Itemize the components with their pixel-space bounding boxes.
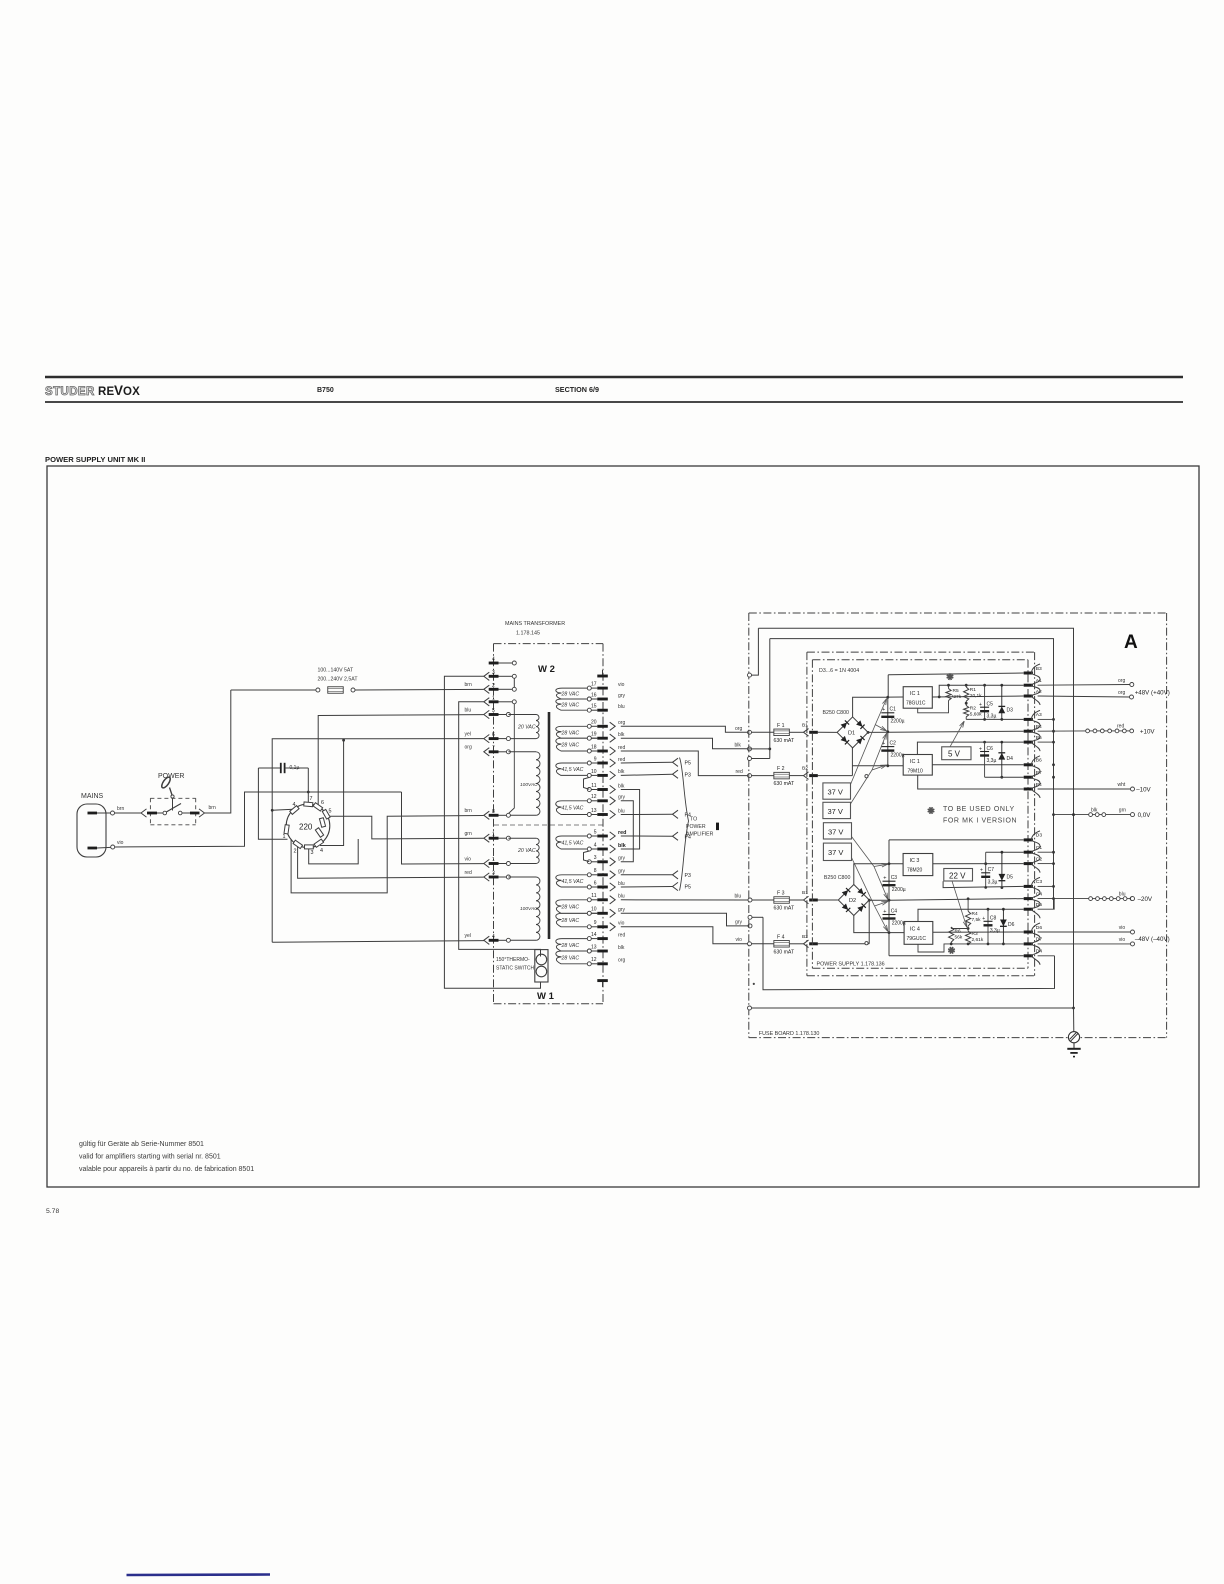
svg-text:vio: vio (618, 921, 625, 927)
transformer primary terminal 4 (489, 662, 499, 665)
selector pin 4 (290, 806, 299, 815)
mains pin vio (88, 847, 98, 850)
svg-text:15: 15 (591, 704, 597, 710)
wire IC2 top to B5 rail (917, 742, 1023, 754)
mains pin brn (88, 812, 98, 815)
wire C3 link (1038, 885, 1054, 887)
junction 0V rail at 0,0V row (1072, 813, 1075, 816)
node vio D6 (1131, 930, 1135, 934)
svg-text:2200µ: 2200µ (891, 753, 905, 759)
ground screw terminal (1068, 1032, 1079, 1043)
svg-text:7: 7 (310, 796, 313, 802)
svg-text:630 mAT: 630 mAT (774, 906, 795, 912)
transformer secondary terminal 16 gry (597, 698, 608, 701)
svg-text:28 VAC: 28 VAC (561, 692, 580, 698)
svg-text:AMPLIFIER: AMPLIFIER (686, 832, 714, 838)
svg-text:A: A (1124, 632, 1138, 653)
svg-text:grn: grn (1119, 807, 1126, 813)
capacitor C6 3,3u (983, 741, 986, 744)
svg-text:wht: wht (1118, 782, 1126, 788)
rail bottom fuse board (748, 1006, 752, 1010)
primary winding 100VAC upper (508, 751, 536, 753)
svg-text:41,5 VAC: 41,5 VAC (562, 767, 584, 773)
rail inner right lower part dots (1052, 718, 1055, 721)
svg-text:gry: gry (618, 856, 625, 862)
svg-text:brn: brn (465, 808, 472, 814)
wire org terminal20 to F1 (621, 726, 748, 732)
svg-text:20: 20 (591, 720, 597, 726)
wire IC4 top to D5 rail (918, 909, 1024, 921)
svg-text:blk: blk (618, 732, 625, 738)
resistor R2 5,60k (965, 701, 967, 705)
node red fuse board edge (748, 774, 752, 778)
svg-text:C3: C3 (891, 875, 898, 881)
svg-text:org: org (735, 726, 742, 732)
net A3 rail (966, 718, 1024, 720)
selector rotor contacts (319, 818, 325, 828)
capacitor C5 3,3u (983, 684, 986, 687)
junction yel pin 4 bottom-right riser (342, 739, 345, 742)
transformer primary terminal 1 (484, 859, 490, 867)
svg-text:1: 1 (492, 857, 495, 863)
wire vio selector pin3 link (309, 839, 359, 864)
svg-text:19: 19 (591, 732, 597, 738)
svg-text:vio: vio (465, 856, 472, 862)
node 0,0V (1131, 813, 1135, 817)
svg-text:blk: blk (618, 769, 625, 775)
svg-text:2200µ: 2200µ (891, 719, 905, 725)
connector P5 upper (673, 758, 679, 766)
connector pin B4 (1024, 788, 1033, 791)
capacitor C2 2200u (887, 732, 889, 766)
transformer secondary terminal 11 blu (597, 898, 608, 901)
svg-text:F 1: F 1 (777, 723, 785, 729)
svg-text:37 V: 37 V (828, 828, 843, 837)
svg-text:2200µ: 2200µ (892, 887, 906, 893)
transformer secondary terminal 14 red (597, 937, 608, 940)
transformer T1 box (494, 643, 604, 645)
net D3 row rail (889, 839, 1024, 841)
svg-text:10: 10 (591, 907, 597, 913)
switch toggle handle (171, 795, 174, 798)
callout 37V box1 (823, 783, 851, 799)
svg-text:P3: P3 (685, 772, 691, 778)
selector pin 5 (322, 809, 330, 819)
svg-text:10: 10 (591, 769, 597, 775)
selector pin 3 (305, 845, 314, 849)
transformer primary terminal 8 (484, 811, 490, 819)
connector B2 at F4 (804, 940, 809, 948)
node brn mains (111, 811, 115, 815)
secondary winding 41,5VAC 8-6 (587, 873, 591, 877)
svg-text:IC 4: IC 4 (910, 927, 920, 933)
power supply board outline (807, 651, 1035, 653)
svg-text:red: red (618, 830, 626, 836)
wire gry hook (752, 916, 763, 918)
output wire org A2 +48V (1038, 696, 1130, 697)
wire terminal 1 to thermo top (459, 702, 541, 957)
connector pin C2 (1024, 862, 1033, 865)
diode D5 (1001, 852, 1003, 887)
svg-text:brn: brn (465, 682, 472, 688)
transformer primary terminal 5 (484, 710, 490, 718)
output wire org A1 (1038, 684, 1130, 687)
svg-text:D6: D6 (1036, 925, 1043, 931)
diode D3 (1000, 684, 1003, 687)
secondary winding 28VAC 20-19 (587, 724, 591, 728)
svg-text:gry: gry (618, 693, 625, 699)
svg-text:+10V: +10V (1140, 729, 1155, 736)
transformer primary terminal 3 (484, 672, 490, 680)
svg-text:RE: RE (98, 386, 115, 398)
diode D6 (1002, 908, 1005, 911)
ground symbol (1073, 1043, 1075, 1049)
svg-text:TO BE USED ONLY: TO BE USED ONLY (943, 806, 1015, 813)
svg-text:41,5 VAC: 41,5 VAC (562, 806, 584, 812)
svg-text:valable pour appareils à parti: valable pour appareils à partir du no. d… (79, 1166, 254, 1173)
wire C1 row rail (986, 851, 1024, 853)
svg-text:5.78: 5.78 (46, 1208, 59, 1215)
svg-text:red: red (736, 769, 743, 775)
svg-text:blk: blk (735, 742, 742, 748)
wire to mains fuse (231, 689, 316, 691)
svg-text:3,3µ: 3,3µ (988, 880, 998, 886)
svg-text:5: 5 (492, 708, 495, 714)
symbol flower note (928, 807, 935, 814)
svg-text:org: org (1118, 690, 1125, 696)
svg-text:4: 4 (320, 848, 323, 854)
svg-text:3,3µ: 3,3µ (990, 928, 1000, 934)
net B7 rail (985, 776, 1024, 778)
svg-text:2,61k: 2,61k (972, 937, 984, 943)
svg-text:28 VAC: 28 VAC (561, 955, 580, 961)
svg-text:22 V: 22 V (949, 872, 966, 881)
wire D1 bottom node to IC2 rail (852, 765, 903, 767)
svg-text:red: red (465, 870, 472, 876)
wire gry down to PS bottom rail (763, 926, 1055, 990)
transformer secondary terminal 10 gry (597, 912, 608, 915)
svg-text:W 1: W 1 (537, 991, 555, 1002)
secondary winding 28VAC 10-9 (587, 911, 591, 915)
callout 37V box3 (823, 823, 851, 839)
svg-text:POWER SUPPLY UNIT MK II: POWER SUPPLY UNIT MK II (45, 455, 145, 464)
svg-text:11: 11 (591, 893, 596, 899)
voltage selector 220V (286, 804, 330, 848)
fuse board outline (749, 612, 1167, 614)
node org A1 (1130, 683, 1134, 687)
node blu fuse board edge (748, 898, 752, 902)
svg-text:220: 220 (299, 823, 313, 832)
svg-text:yel: yel (465, 933, 471, 939)
svg-text:valid for amplifiers starting: valid for amplifiers starting with seria… (79, 1154, 221, 1161)
svg-text:+48V (+40V): +48V (+40V) (1135, 690, 1170, 697)
wire IC2 bottom to wht row (918, 775, 1024, 789)
svg-text:FUSE BOARD 1.178.130: FUSE BOARD 1.178.130 (759, 1031, 820, 1037)
junction yel pin 4 top-left (271, 809, 274, 812)
svg-text:+: + (980, 868, 983, 874)
wire 8 to P3 lower (621, 874, 673, 876)
svg-text:P3: P3 (685, 873, 691, 879)
secondary winding 28VAC 16-15 (587, 697, 591, 701)
svg-text:B3: B3 (1036, 666, 1042, 672)
svg-text:37 V: 37 V (828, 788, 843, 797)
node blk fuse board edge (748, 747, 752, 751)
svg-text:8: 8 (492, 809, 495, 815)
thermostatic switch 150deg (535, 950, 548, 982)
svg-text:IC 1: IC 1 (910, 759, 920, 765)
wire cap-left to selector pin 1 (258, 768, 287, 839)
wire vio down to terminal vio (402, 792, 484, 864)
junction vio capacitor tap (307, 791, 310, 794)
transformer primary terminal 1 (484, 698, 490, 706)
output wire red +10V (1038, 730, 1086, 732)
svg-text:POWER SUPPLY 1.178.136: POWER SUPPLY 1.178.136 (817, 961, 885, 967)
selector pin 4 (314, 839, 324, 847)
wire brn mains to switch (115, 812, 142, 814)
node fuse left (316, 688, 320, 692)
svg-text:18: 18 (591, 744, 597, 750)
wire vio mains to selector (115, 792, 402, 847)
svg-text:4: 4 (293, 802, 296, 808)
wire brn fuse to transformer terminal 2 (355, 688, 484, 691)
wire blk terminal19 to board (621, 738, 748, 749)
transformer secondary terminal 9 vio (597, 925, 608, 928)
regulator IC1 78GU1C (888, 696, 903, 698)
svg-text:B750: B750 (317, 387, 334, 394)
svg-text:blk: blk (618, 783, 625, 789)
transformer secondary terminal 6 blu (597, 886, 608, 889)
connector P4 lower (673, 832, 679, 840)
svg-text:C3: C3 (1036, 879, 1043, 885)
svg-text:100VAC: 100VAC (520, 906, 538, 912)
connector P3 lower (673, 871, 679, 879)
secondary winding 28VAC 19-18 (587, 736, 591, 740)
node vio fuse board edge (748, 942, 752, 946)
transformer primary terminal 4 (484, 936, 490, 944)
svg-text:4: 4 (492, 657, 495, 663)
transformer secondary terminal 5 red (597, 835, 608, 838)
svg-text:vio: vio (736, 937, 743, 943)
svg-text:D3: D3 (1007, 708, 1014, 714)
node wht (1131, 787, 1135, 791)
svg-text:R5: R5 (953, 688, 959, 694)
wire cap to selector pin 7 (307, 768, 309, 803)
svg-text:6: 6 (321, 800, 324, 806)
svg-text:org: org (1118, 678, 1125, 684)
svg-text:red: red (618, 932, 625, 938)
svg-text:B250 C800: B250 C800 (824, 875, 851, 881)
callout 22V box (944, 869, 973, 882)
svg-text:16: 16 (591, 692, 597, 698)
svg-text:brn: brn (209, 805, 216, 811)
wire 13 to P4 (621, 813, 673, 815)
connector pin B4 (1024, 730, 1033, 733)
connector pin D5 (1024, 908, 1033, 911)
svg-text:0,0V: 0,0V (1138, 812, 1152, 819)
svg-text:79GU1C: 79GU1C (907, 936, 927, 942)
secondary terminal 11 link (587, 788, 591, 792)
wire yel selector to transformer terminal 6 (272, 739, 483, 943)
primary winding 20VAC lower (508, 837, 536, 839)
svg-text:2: 2 (492, 683, 495, 689)
wire IC1 adj (918, 701, 949, 713)
capacitor C8 3,3u (987, 908, 990, 911)
svg-text:3,3µ: 3,3µ (987, 714, 997, 720)
secondary winding 28VAC 17-16 (587, 686, 591, 690)
svg-text:1: 1 (283, 834, 286, 840)
wire IC1 out to A rails (932, 696, 1023, 697)
svg-text:20 VAC: 20 VAC (517, 725, 536, 731)
transformer secondary terminal 3 gry (597, 860, 608, 863)
svg-text:gry: gry (618, 795, 625, 801)
callout 37V box4 (823, 843, 851, 860)
wire D1 top to +rail (853, 697, 888, 717)
fuse F3 630mAT (752, 899, 774, 901)
secondary winding 41,5VAC 9-10 (587, 761, 591, 765)
transformer primary terminal 7 (484, 748, 490, 756)
svg-text:vio: vio (618, 682, 625, 688)
wire D2 top to IC3 rail (854, 864, 903, 885)
svg-text:W 2: W 2 (538, 664, 555, 675)
svg-text:78GU1C: 78GU1C (906, 701, 926, 707)
svg-text:100VAC: 100VAC (520, 782, 538, 788)
svg-text:gry: gry (735, 919, 742, 925)
wire terminal 3 to thermo bottom (444, 676, 540, 988)
wire gry terminal10 to board (621, 913, 748, 926)
secondary winding 41,5VAC 5-4 (587, 834, 591, 838)
svg-text:12: 12 (591, 794, 597, 800)
svg-text:28 VAC: 28 VAC (561, 918, 580, 924)
wire vio terminal9 to F4 (621, 927, 748, 944)
wire A3 to 0V rail (1038, 718, 1054, 720)
svg-text:P5: P5 (685, 885, 691, 891)
svg-text:MAINS: MAINS (81, 793, 104, 800)
jumper terminal1 to terminal8 (509, 704, 515, 814)
wire grn selector pin5 to terminal 1 (328, 816, 483, 839)
svg-text:1: 1 (492, 695, 495, 701)
secondary winding 28VAC 11-10 (587, 898, 591, 902)
svg-text:13: 13 (591, 944, 597, 950)
transformer core (548, 712, 551, 939)
connector pin A3 (1024, 718, 1033, 721)
svg-text:4: 4 (492, 934, 495, 940)
svg-text:gültig für Geräte ab Serie-Num: gültig für Geräte ab Serie-Nummer 8501 (79, 1141, 204, 1148)
connector pin D6 (1024, 931, 1033, 934)
svg-text:79M10: 79M10 (908, 769, 924, 775)
svg-text:grn: grn (465, 831, 472, 837)
transformer primary terminal 2 (484, 685, 490, 693)
resistor R4 7,5k (967, 897, 970, 900)
node vio D7 (1131, 942, 1135, 946)
svg-text:blu: blu (735, 893, 742, 899)
svg-text:C2: C2 (890, 741, 897, 747)
svg-text:+: + (883, 876, 886, 882)
wire C1 C2 link (1038, 851, 1054, 853)
svg-text:17: 17 (591, 682, 597, 688)
svg-text:vio: vio (1119, 925, 1126, 931)
connector B1 at F1 (804, 729, 809, 737)
test point on 37V callout lower (865, 942, 868, 945)
jumper terminal 11 to terminal 4 (621, 790, 640, 850)
svg-text:20 VAC: 20 VAC (517, 848, 536, 854)
resistor R5 27k (947, 684, 950, 687)
fuse F1 630mAT (752, 731, 774, 733)
junction blk row (768, 748, 771, 751)
wire blu terminal11 to F3 (621, 899, 748, 901)
selector pin 6 (313, 803, 323, 811)
wire IC4 out to D6 row (933, 931, 1024, 933)
selector pin 2 (293, 840, 303, 848)
svg-text:3: 3 (311, 850, 314, 856)
connector pin waves (1032, 664, 1041, 705)
wire 5 to P4 lower (621, 835, 673, 837)
svg-text:5: 5 (594, 829, 597, 835)
wire D2 right to C-mid rail (869, 899, 889, 901)
secondary shield stub bottom (597, 979, 608, 982)
brace to power amplifier (680, 758, 689, 891)
connector B2 at F2 (804, 772, 809, 780)
primary winding 100VAC lower (508, 876, 536, 878)
svg-text:B6: B6 (1036, 758, 1042, 764)
svg-text:200...240V 2,5AT: 200...240V 2,5AT (318, 677, 359, 683)
junction R4 R3 R6 (967, 926, 969, 931)
svg-text:630 mAT: 630 mAT (774, 949, 795, 955)
wire blu selector pin6 to terminal 5 (318, 715, 483, 806)
svg-text:gry: gry (618, 869, 625, 875)
schematic border frame (47, 466, 1199, 1187)
svg-text:20,1k: 20,1k (970, 693, 982, 699)
transformer primary terminal 1 (484, 834, 490, 842)
svg-text:2: 2 (294, 849, 297, 855)
wire 10 to P3 (621, 774, 673, 775)
capacitor C1 2200u (887, 697, 889, 732)
svg-text:STATIC SWITCH: STATIC SWITCH (496, 966, 535, 972)
transformer secondary terminal 15 blu (597, 709, 608, 712)
svg-text:3,3µ: 3,3µ (987, 758, 997, 764)
svg-text:C4: C4 (891, 908, 898, 914)
svg-text:blu: blu (465, 707, 472, 713)
svg-text:3: 3 (492, 871, 495, 877)
wire IC4 bottom to D7 rail (918, 944, 1024, 952)
wire 6 to P5 lower (621, 886, 673, 889)
wire yel horizontal to thermo terminal (272, 941, 484, 943)
connector pin D4 (1024, 954, 1033, 957)
output wire 0,0V (1054, 814, 1089, 816)
connector pin B3 (1024, 672, 1033, 675)
svg-text:28 VAC: 28 VAC (561, 943, 580, 949)
capacitor C mains 0,1u (258, 767, 280, 769)
symbol flower lower (948, 947, 955, 954)
svg-text:IC 1: IC 1 (910, 691, 920, 697)
node org fuse board edge (748, 730, 752, 734)
wire 9 to P5 (621, 761, 673, 764)
svg-text:SECTION 6/9: SECTION 6/9 (555, 385, 599, 394)
connector P4 upper (673, 810, 679, 818)
wire D4 row drop (1038, 955, 1055, 957)
connector pin B6 (1024, 763, 1033, 766)
transformer secondary terminal 9 red (597, 762, 608, 765)
transformer primary terminal 3 (484, 873, 490, 881)
svg-text:8: 8 (594, 868, 597, 874)
svg-text:9: 9 (594, 756, 597, 762)
svg-text:MAINS TRANSFORMER: MAINS TRANSFORMER (505, 621, 565, 627)
svg-text:C7: C7 (988, 867, 995, 873)
svg-text:28 VAC: 28 VAC (561, 743, 580, 749)
svg-text:6: 6 (594, 880, 597, 886)
svg-text:red: red (1117, 724, 1124, 730)
svg-text:red: red (618, 745, 625, 751)
wire red selector pin2 to terminal 3 (298, 847, 484, 879)
